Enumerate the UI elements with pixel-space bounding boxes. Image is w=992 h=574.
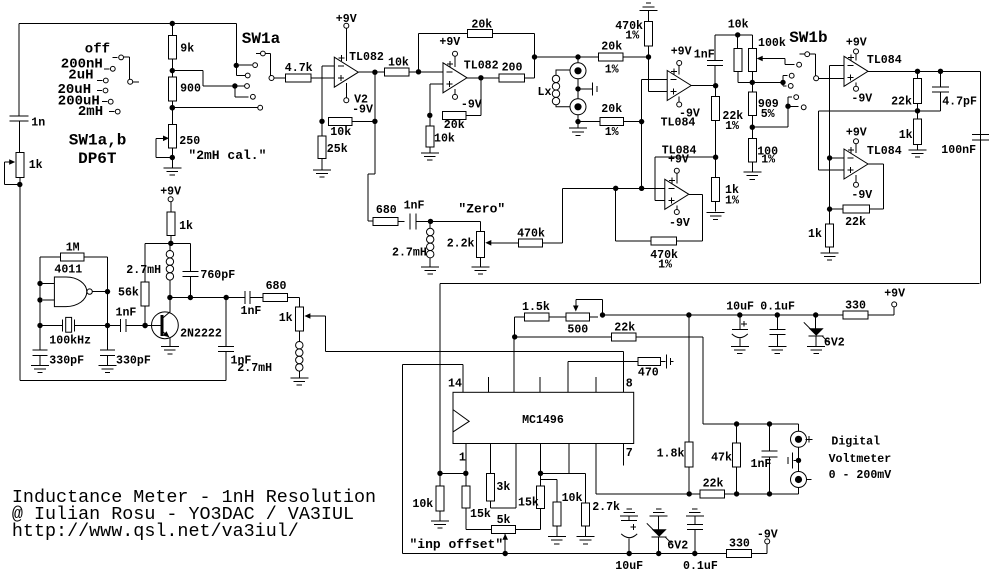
svg-text:900: 900 [180,82,201,95]
svg-text:100kHz: 100kHz [49,335,91,348]
svg-text:SW1b: SW1b [789,29,827,47]
svg-text:2.7mH: 2.7mH [392,247,427,260]
svg-text:10k: 10k [434,133,455,146]
svg-text:+9V: +9V [846,37,867,50]
svg-text:0.1uF: 0.1uF [683,560,718,573]
svg-text:10uF: 10uF [726,301,754,314]
svg-text:1%: 1% [725,120,739,133]
svg-text:1%: 1% [605,64,619,77]
svg-text:20k: 20k [601,103,622,116]
svg-text:4.7pF: 4.7pF [942,96,977,109]
svg-text:SW1a,b: SW1a,b [69,132,127,150]
svg-text:-9V: -9V [851,189,872,202]
svg-text:4011: 4011 [54,264,82,277]
svg-text:SW1a: SW1a [242,30,281,48]
svg-text:10k: 10k [728,19,749,32]
svg-text:TL084: TL084 [662,145,697,158]
svg-text:10uF: 10uF [615,560,643,573]
svg-text:56k: 56k [118,287,139,300]
svg-text:1.8k: 1.8k [657,448,685,461]
svg-text:Voltmeter: Voltmeter [829,453,892,466]
svg-text:10k: 10k [412,498,433,511]
svg-text:TL082: TL082 [464,60,499,73]
svg-text:TL084: TL084 [867,145,902,158]
svg-text:"Zero": "Zero" [458,202,505,217]
svg-text:4.7k: 4.7k [285,62,313,75]
svg-text:-9V: -9V [757,529,778,542]
svg-text:TL082: TL082 [349,51,384,64]
svg-text:-9V: -9V [352,104,373,117]
svg-text:"2mH cal.": "2mH cal." [188,148,266,163]
svg-text:330pF: 330pF [49,355,84,368]
svg-text:1nF: 1nF [116,306,137,319]
svg-text:3k: 3k [496,481,510,494]
svg-text:1M: 1M [66,242,80,255]
svg-text:22k: 22k [845,216,866,229]
svg-text:1nF: 1nF [694,49,715,62]
svg-text:+9V: +9V [846,127,867,140]
svg-text:1%: 1% [761,153,775,166]
svg-text:20k: 20k [601,41,622,54]
svg-text:8: 8 [626,378,633,391]
svg-text:10k: 10k [388,57,409,70]
svg-text:Digital: Digital [831,436,880,449]
svg-text:2.7mH: 2.7mH [126,264,161,277]
svg-text:5k: 5k [497,514,511,527]
svg-text:22k: 22k [891,96,912,109]
svg-text:22k: 22k [703,478,724,491]
svg-text:-9V: -9V [669,217,690,230]
svg-text:http://www.qsl.net/va3iul/: http://www.qsl.net/va3iul/ [12,521,299,542]
svg-text:15k: 15k [518,497,539,510]
svg-text:1.5k: 1.5k [522,301,550,314]
svg-text:1%: 1% [605,126,619,139]
svg-text:1%: 1% [658,259,672,272]
svg-text:1k: 1k [179,220,193,233]
svg-text:10k: 10k [562,492,583,505]
svg-text:1%: 1% [625,30,639,43]
svg-text:Lx: Lx [538,86,552,99]
svg-text:330pF: 330pF [116,355,151,368]
svg-text:14: 14 [448,378,462,391]
svg-text:1nF: 1nF [404,200,425,213]
svg-text:5%: 5% [761,108,775,121]
svg-text:6V2: 6V2 [667,540,688,553]
svg-text:2mH: 2mH [78,104,103,120]
svg-text:+9V: +9V [439,36,460,49]
svg-text:2N2222: 2N2222 [180,328,222,341]
svg-text:"inp offset": "inp offset" [410,537,504,552]
svg-text:6V2: 6V2 [824,337,845,350]
svg-text:500: 500 [567,324,588,337]
svg-text:-9V: -9V [461,99,482,112]
svg-text:22k: 22k [614,322,635,335]
svg-text:2.2k: 2.2k [447,238,475,251]
svg-text:47k: 47k [711,452,732,465]
svg-text:1%: 1% [725,195,739,208]
svg-text:1nF: 1nF [241,305,262,318]
svg-text:+9V: +9V [336,13,357,26]
svg-text:470k: 470k [517,228,545,241]
svg-text:15k: 15k [470,508,491,521]
svg-text:25k: 25k [327,143,348,156]
svg-text:330: 330 [845,300,866,313]
svg-text:1nF: 1nF [751,458,772,471]
svg-text:off: off [85,42,110,58]
svg-text:DP6T: DP6T [78,150,117,168]
svg-text:+9V: +9V [160,186,181,199]
svg-text:200: 200 [502,62,523,75]
svg-text:100k: 100k [758,37,786,50]
svg-text:1k: 1k [899,129,913,142]
svg-text:20k: 20k [471,19,492,32]
svg-text:1n: 1n [31,117,45,130]
svg-text:330: 330 [729,538,750,551]
svg-text:250: 250 [179,135,200,148]
svg-text:MC1496: MC1496 [522,414,564,427]
svg-text:9k: 9k [180,43,194,56]
svg-text:100nF: 100nF [941,144,976,157]
svg-text:0 - 200mV: 0 - 200mV [829,469,892,482]
svg-text:TL084: TL084 [661,117,696,130]
svg-text:1k: 1k [808,228,822,241]
svg-text:680: 680 [266,280,287,293]
svg-text:2.7k: 2.7k [592,501,620,514]
svg-text:TL084: TL084 [867,54,902,67]
svg-text:20k: 20k [444,119,465,132]
svg-text:680: 680 [376,204,397,217]
svg-text:+9V: +9V [884,288,905,301]
svg-text:0.1uF: 0.1uF [760,301,795,314]
svg-text:+9V: +9V [671,46,692,59]
svg-text:1k: 1k [29,159,43,172]
svg-text:1nF: 1nF [231,355,252,368]
svg-text:1: 1 [459,452,466,465]
svg-text:-9V: -9V [851,93,872,106]
svg-text:1k: 1k [279,312,293,325]
svg-text:470: 470 [638,367,659,380]
svg-text:760pF: 760pF [200,269,235,282]
svg-text:7: 7 [626,447,633,460]
svg-text:10k: 10k [330,126,351,139]
